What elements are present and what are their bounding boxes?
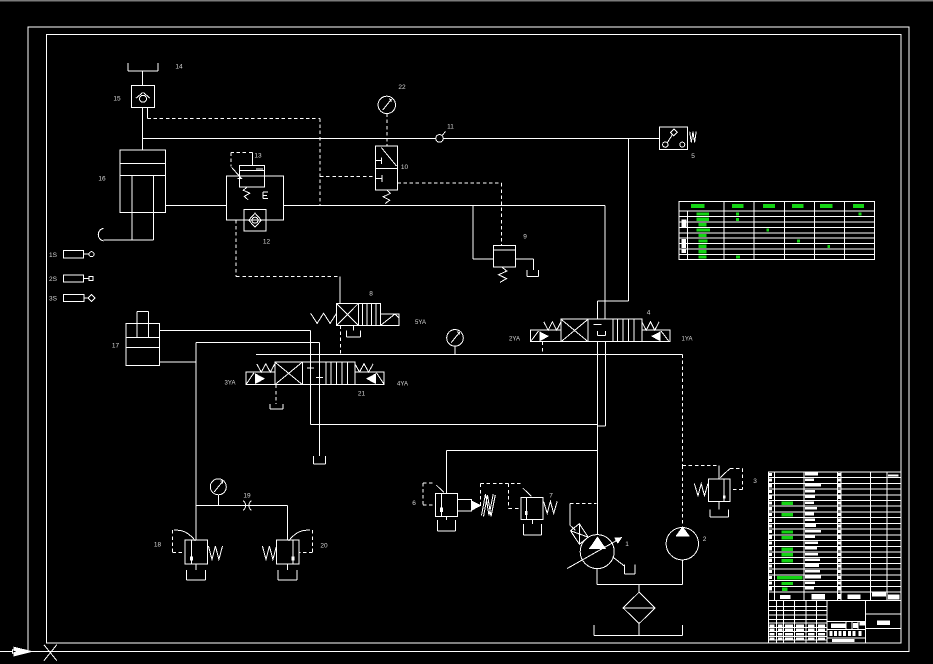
valve 21 parallel bars	[330, 362, 332, 385]
valve 3 tank	[709, 510, 711, 518]
valve 10 left pilot dashed	[320, 175, 376, 177]
BOM table grid	[768, 472, 901, 592]
valve 6 spring	[482, 494, 494, 516]
svg-text:2YA: 2YA	[509, 337, 520, 343]
svg-text:22: 22	[398, 84, 406, 91]
valve 6 tank stem	[446, 517, 448, 520]
wire B line drop	[319, 343, 321, 456]
wire trunk down to pump 1	[596, 426, 598, 535]
svg-text:3: 3	[753, 478, 757, 485]
svg-text:12: 12	[263, 239, 271, 246]
sequence table stub column	[686, 211, 688, 259]
valve 8 parallel bars	[361, 303, 363, 325]
wire drop to valve 4 B port	[604, 206, 606, 320]
valve 21 drain tank	[269, 404, 271, 409]
wire filter stem top	[638, 584, 640, 592]
svg-text:2S: 2S	[49, 276, 58, 283]
valve 20	[277, 540, 300, 564]
valve 8 tank stem	[353, 326, 355, 331]
title block middle section	[865, 601, 867, 643]
valve 4 parallel bars	[617, 319, 619, 342]
valve 6 supply stem	[445, 450, 447, 493]
valve 6 tank	[436, 520, 438, 531]
valve 3 spring	[694, 484, 708, 496]
gauge lower stem	[217, 495, 219, 506]
valve 4 left solenoid	[531, 330, 562, 342]
bottom edge line extension	[0, 651, 28, 653]
svg-text:17: 17	[112, 343, 120, 350]
valve 21 crossed arrows	[275, 362, 303, 385]
valve 8 crossed arrows	[337, 303, 359, 325]
check valve 15	[131, 85, 154, 107]
svg-text:2: 2	[703, 536, 707, 543]
plot arrow marker bottom-left	[14, 647, 32, 656]
svg-text:1: 1	[625, 541, 629, 548]
valve 9 spring	[499, 267, 507, 282]
valve 18 pilot dashed	[177, 530, 195, 541]
top gray strip	[0, 0, 933, 1]
valve 8 body	[337, 303, 381, 325]
wire B line horizontal	[196, 342, 319, 344]
wire valve15 down to cylinder 16	[142, 107, 144, 150]
cylinder 16 piston rod	[131, 176, 133, 241]
valve 9 tank	[526, 270, 528, 276]
valve 3 pilot dashed loop	[720, 469, 729, 478]
valve 18	[185, 540, 208, 564]
svg-text:21: 21	[358, 391, 366, 398]
valve 18 spring	[208, 546, 222, 560]
check valve 12	[244, 209, 266, 231]
relief valve 7	[521, 497, 543, 519]
svg-text:4YA: 4YA	[397, 381, 408, 387]
reservoir bracket	[593, 625, 595, 636]
valve 13 pilot dashes	[251, 152, 253, 165]
limit switch 3S	[63, 294, 84, 301]
svg-text:18: 18	[154, 542, 162, 549]
svg-text:4: 4	[647, 310, 651, 317]
svg-text:1YA: 1YA	[682, 337, 693, 343]
relief valve 3	[709, 479, 731, 502]
gauge 22 dashed stem	[386, 114, 388, 146]
valve 8 drain dashed	[339, 326, 341, 355]
wire left trunk down	[195, 343, 197, 506]
svg-text:15: 15	[113, 96, 121, 103]
gauge mid stem	[454, 346, 456, 354]
wire pump suction	[596, 569, 598, 585]
rod end hook	[98, 228, 103, 241]
pump 1 compensator dashed	[570, 503, 597, 505]
valve 21 left solenoid	[246, 372, 275, 385]
title block outline	[768, 601, 901, 643]
valve 9 outlet wire	[515, 258, 533, 260]
valve 21 right solenoid	[355, 372, 384, 385]
wire filter stem bottom	[638, 624, 640, 636]
svg-text:13: 13	[254, 153, 262, 160]
wire cyl17 top port	[160, 329, 311, 331]
wire main pressure line	[143, 137, 660, 139]
sequence table scattered marks	[736, 212, 739, 215]
wire P stem upper	[596, 301, 598, 319]
svg-text:6: 6	[412, 500, 416, 507]
valve 7 tank	[522, 524, 524, 535]
wire supply drop from main line	[628, 138, 630, 301]
valve 4 crossed arrows	[561, 319, 588, 342]
X marker bottom-left	[44, 645, 57, 661]
BOM first row extra blob	[888, 475, 899, 477]
wire valve 4 lower stems	[596, 342, 598, 426]
wire A bus	[311, 424, 598, 426]
wire valve15 to pilot dashed line	[147, 107, 149, 118]
relief valve 9	[493, 246, 515, 267]
valve 10	[376, 146, 398, 190]
valve 12 drain dashed	[235, 220, 237, 277]
pilot dashed line top	[148, 118, 321, 120]
gauge lower left	[210, 479, 226, 495]
sequence table row green bars	[696, 212, 708, 215]
filter	[623, 592, 655, 623]
svg-text:20: 20	[320, 543, 328, 550]
valve 7 tank stem	[531, 519, 533, 524]
drain symbol E	[262, 192, 264, 198]
valve 21 right spring	[355, 364, 373, 372]
valve 9 pilot dashed	[501, 183, 503, 245]
svg-text:10: 10	[401, 164, 409, 171]
valve 4 solenoid drain dashed	[542, 342, 544, 355]
title block left grid text blobs	[769, 624, 774, 627]
wire cyl17 bottom port	[160, 361, 197, 363]
pump 1 variable arrow	[567, 539, 619, 569]
valve 3 tank stem	[718, 501, 720, 509]
pilot dashed drop at x=320	[319, 119, 321, 206]
valve 4 right spring	[642, 322, 659, 330]
wire crossbar to P stem	[597, 300, 628, 302]
valve 13 pilot diagonal arrow	[232, 167, 242, 178]
valve 7 spring	[544, 501, 558, 513]
valve 21 B port tank	[313, 456, 315, 464]
valve 4 center marks	[593, 324, 601, 326]
wire manifold drop right	[287, 506, 289, 541]
pump 1 drain	[613, 557, 626, 567]
limit switch 1S	[63, 251, 83, 258]
valve 21 drain dashed	[275, 385, 277, 404]
valve 8 spring	[311, 313, 337, 323]
svg-text:16: 16	[98, 175, 106, 182]
svg-text:1S: 1S	[49, 252, 58, 259]
svg-text:8: 8	[369, 291, 373, 298]
pressure switch 5 spring	[690, 132, 697, 143]
pressure gauge mid	[447, 330, 464, 347]
valve block outer box	[226, 176, 283, 220]
svg-text:5: 5	[691, 153, 695, 160]
svg-text:14: 14	[175, 64, 183, 71]
node 11 connector	[436, 135, 444, 143]
sequence valve 6	[435, 493, 457, 516]
valve 21 left spring	[257, 364, 275, 372]
valve 7 pilot dashed	[481, 483, 521, 485]
tank symbol 14	[127, 63, 129, 71]
wire cyl16 port line left	[166, 205, 227, 207]
cylinder 17 rod	[136, 311, 138, 337]
pressure switch 5	[659, 127, 687, 149]
pump 2	[666, 528, 698, 560]
wire tap to valve 9	[472, 206, 474, 259]
svg-text:9: 9	[523, 234, 527, 241]
valve 8 solenoid	[380, 314, 399, 326]
BOM row marks	[769, 473, 772, 476]
svg-text:19: 19	[243, 493, 251, 500]
limit switch 2S	[63, 275, 83, 282]
valve 20 pilot dashed	[289, 530, 307, 541]
valve 13 spring	[243, 187, 250, 200]
valve 10 spring	[383, 190, 390, 204]
valve 4 left spring	[544, 322, 561, 330]
sequence table header green bars	[691, 204, 704, 208]
valve 4 body	[561, 319, 642, 342]
wire valve block to valve 4 drop	[283, 205, 605, 207]
title block drawing number blob	[832, 639, 855, 642]
pump 1 variable	[580, 535, 614, 569]
wire manifold drop left	[195, 506, 197, 541]
valve 21 body	[275, 362, 355, 385]
wire cyl17 top port drop	[310, 330, 312, 424]
title block left grid	[776, 601, 778, 643]
cylinder 17 barrel	[126, 324, 159, 366]
rod end link wire	[104, 239, 133, 241]
wire manifold	[196, 505, 288, 507]
title block right section	[866, 613, 901, 615]
dashed supply to valve 3	[682, 354, 684, 465]
valve 21 center position marks	[307, 367, 314, 369]
relief valve 13	[240, 166, 265, 187]
wire bus to valve 6	[446, 449, 597, 451]
valve 18 tank	[195, 564, 197, 570]
svg-text:3S: 3S	[49, 296, 58, 303]
sequence table grid	[679, 201, 875, 259]
pump 1 drain tank	[624, 565, 626, 574]
wire to valve 8 top	[339, 277, 341, 304]
wire tank14 to valve15	[142, 71, 144, 85]
pump 1 stroke actuator	[571, 524, 589, 545]
valve 6 piston	[457, 500, 471, 511]
valve 20 tank	[287, 564, 289, 570]
wire bus to pumps	[256, 353, 683, 355]
cylinder 16 barrel	[120, 150, 166, 213]
svg-text:7: 7	[549, 493, 553, 500]
valve 4 right solenoid	[642, 330, 670, 342]
throttle 19	[243, 501, 245, 511]
pressure gauge 22	[378, 96, 395, 113]
title block stamp boxes	[830, 631, 833, 636]
BOM header row	[768, 592, 901, 601]
valve 3 supply stem	[718, 465, 720, 479]
dashed to pump 2	[682, 465, 684, 527]
valve 10 right pilot dashed	[397, 182, 501, 184]
svg-text:3YA: 3YA	[225, 380, 236, 386]
valve 20 spring	[262, 546, 276, 560]
valve 8 tank	[346, 330, 348, 337]
svg-text:11: 11	[447, 124, 454, 131]
valve 6 pilot dashed loop	[423, 482, 434, 484]
svg-text:5YA: 5YA	[415, 320, 426, 326]
